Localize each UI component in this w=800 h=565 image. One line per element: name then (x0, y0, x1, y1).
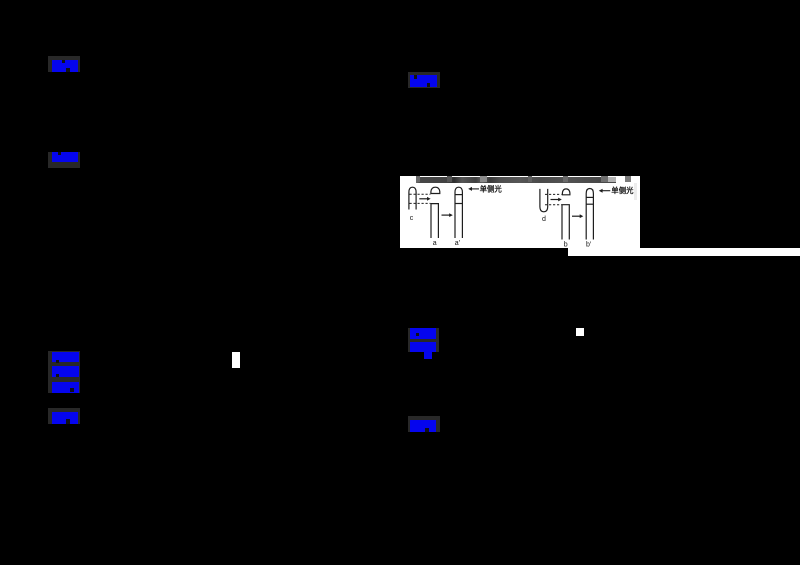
svg-text:d: d (542, 216, 546, 223)
svg-text:单侧光: 单侧光 (480, 184, 503, 193)
svg-text:b′: b′ (586, 242, 592, 249)
svg-text:单侧光: 单侧光 (611, 186, 634, 195)
svg-text:a: a (433, 240, 437, 247)
svg-text:b: b (564, 242, 568, 249)
svg-text:c: c (410, 215, 414, 222)
svg-text:a′: a′ (455, 240, 461, 247)
